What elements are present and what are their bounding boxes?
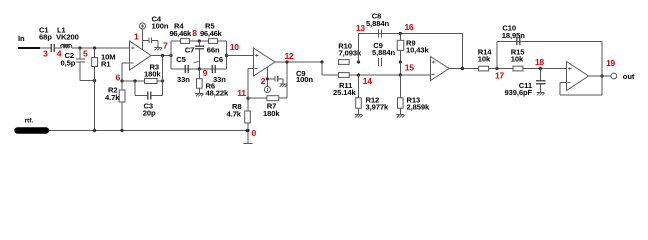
- capacitor C1: [39, 25, 54, 52]
- reference lead rtf.: [18, 118, 47, 131]
- svg-text:4.7k: 4.7k: [227, 110, 242, 119]
- resistor R9: [397, 34, 429, 63]
- node 15: [399, 60, 415, 75]
- capacitor C10: [497, 23, 602, 68]
- svg-text:10: 10: [230, 42, 239, 52]
- ground: [355, 115, 363, 118]
- power terminal V+: [140, 23, 146, 29]
- node 7: [161, 41, 168, 58]
- resistor R11: [333, 73, 357, 97]
- resistor R4: [170, 22, 193, 44]
- svg-text:5: 5: [83, 49, 88, 59]
- svg-text:R1: R1: [101, 60, 111, 69]
- node 8: [192, 28, 201, 43]
- node 14: [357, 73, 372, 86]
- svg-text:15: 15: [405, 63, 414, 73]
- resistor R7: [248, 96, 287, 118]
- wire U2 output: [275, 61, 322, 63]
- wire: [40, 47, 51, 49]
- node 16: [399, 22, 414, 35]
- svg-text:180k: 180k: [144, 69, 161, 78]
- node 19: [600, 58, 615, 78]
- node 10: [225, 42, 239, 57]
- wire filter left edge: [170, 41, 172, 69]
- ground: [397, 115, 405, 118]
- wire U4 output: [589, 75, 611, 77]
- node rail R1: [93, 129, 96, 132]
- wire: [72, 47, 130, 49]
- op-amp U2: [254, 48, 276, 76]
- node junction R13: [399, 73, 402, 76]
- svg-text:13: 13: [356, 23, 365, 33]
- svg-text:C7: C7: [185, 46, 195, 55]
- wire: [80, 79, 96, 82]
- svg-text:19: 19: [606, 58, 615, 68]
- wire: [157, 56, 164, 83]
- node 12: [285, 51, 294, 64]
- capacitor C9b: [372, 41, 396, 66]
- svg-text:68p: 68p: [39, 33, 52, 42]
- resistor R1: [92, 46, 116, 130]
- svg-text:8: 8: [192, 28, 197, 38]
- wire minus input U1: [122, 63, 130, 81]
- svg-text:16: 16: [405, 22, 414, 32]
- label out: [623, 72, 635, 81]
- svg-text:4: 4: [57, 49, 62, 59]
- capacitor C4: [143, 14, 169, 47]
- svg-text:10,43k: 10,43k: [406, 45, 430, 54]
- svg-text:5,884n: 5,884n: [366, 19, 390, 28]
- wire feedback: [461, 34, 464, 71]
- svg-text:C6: C6: [214, 55, 224, 64]
- node 6: [116, 73, 124, 83]
- svg-text:0: 0: [252, 128, 257, 138]
- node 1 supply wire: [134, 29, 143, 50]
- svg-text:18,95n: 18,95n: [502, 31, 526, 40]
- wire: [489, 68, 513, 70]
- capacitor C5: [176, 55, 190, 84]
- wire filter right edge: [226, 41, 228, 69]
- resistor R3: [144, 62, 161, 83]
- node In terminal lead: [18, 47, 40, 49]
- svg-text:out: out: [623, 72, 635, 81]
- resistor R12: [356, 75, 389, 115]
- capacitor C8: [366, 12, 390, 38]
- svg-text:4.7k: 4.7k: [105, 93, 120, 102]
- node out terminal: [611, 73, 617, 79]
- node 4: [57, 49, 62, 59]
- wire: [523, 68, 567, 70]
- svg-text:33n: 33n: [177, 75, 190, 84]
- svg-text:VK200: VK200: [56, 32, 79, 41]
- inductor L1: [56, 25, 79, 48]
- svg-text:17: 17: [495, 71, 504, 81]
- node 5: [78, 46, 88, 58]
- resistor R15: [511, 48, 526, 71]
- svg-text:14: 14: [363, 76, 372, 86]
- op-amp U4: [567, 62, 589, 91]
- svg-text:rtf.: rtf.: [25, 118, 34, 125]
- node 7 junction: [169, 54, 172, 57]
- svg-text:96,46k: 96,46k: [200, 29, 223, 38]
- node rail R8: [246, 129, 249, 132]
- svg-text:180k: 180k: [263, 109, 280, 118]
- capacitor C3: [133, 79, 162, 117]
- svg-text:3,977k: 3,977k: [366, 103, 390, 112]
- wire: [54, 47, 61, 49]
- ground: [154, 48, 162, 51]
- resistor R13: [398, 75, 431, 115]
- capacitor C11: [505, 69, 546, 97]
- svg-text:10k: 10k: [511, 55, 524, 64]
- power terminal V-: [264, 87, 270, 93]
- node 3: [43, 49, 48, 59]
- svg-text:5,884n: 5,884n: [372, 48, 396, 57]
- ground: [279, 84, 287, 87]
- node 9: [198, 67, 208, 78]
- node 13 wire: [356, 23, 365, 64]
- svg-text:66n: 66n: [207, 46, 220, 55]
- power terminal V- wire: [261, 67, 269, 87]
- node junction: [320, 60, 323, 63]
- ground terminal bar: [244, 143, 253, 145]
- wire U3 output: [449, 68, 479, 70]
- wire out of U1: [151, 55, 171, 57]
- node 18: [535, 57, 544, 70]
- wire filter bottom: [171, 68, 227, 70]
- capacitor C9 supply: [267, 69, 313, 84]
- wire C8 line: [359, 33, 463, 35]
- label In: [18, 34, 25, 43]
- capacitor C6: [212, 55, 226, 84]
- svg-text:1: 1: [134, 32, 139, 42]
- svg-text:3: 3: [43, 49, 48, 59]
- svg-text:12: 12: [285, 51, 294, 61]
- ground: [196, 94, 204, 97]
- svg-text:100n: 100n: [152, 21, 169, 30]
- resistor R10: [338, 42, 362, 65]
- resistor R6: [197, 69, 230, 97]
- svg-text:7: 7: [163, 41, 168, 51]
- resistor R14: [478, 48, 493, 71]
- svg-text:2: 2: [261, 76, 266, 86]
- svg-text:18: 18: [535, 57, 544, 67]
- node rail R2: [120, 129, 123, 132]
- wire filter top: [171, 40, 227, 42]
- resistor R5: [200, 22, 223, 44]
- svg-text:25.14k: 25.14k: [333, 88, 357, 97]
- wire ground rail: [40, 130, 248, 132]
- op-amp U1: [130, 41, 152, 70]
- svg-text:100n: 100n: [296, 75, 313, 84]
- wire: [286, 62, 288, 98]
- node 0: [246, 128, 256, 138]
- wire minus input U2: [248, 69, 254, 99]
- op-amp U3: [431, 57, 450, 81]
- capacitor C7 trimmer: [185, 41, 220, 69]
- ground: [537, 93, 545, 96]
- wire feedback: [122, 80, 145, 82]
- svg-text:In: In: [18, 34, 25, 43]
- svg-text:6: 6: [116, 73, 121, 83]
- node 11: [237, 88, 249, 100]
- svg-text:48,22k: 48,22k: [206, 88, 230, 97]
- svg-text:10k: 10k: [478, 55, 491, 64]
- svg-text:96,46k: 96,46k: [170, 29, 193, 38]
- svg-text:939,6pF: 939,6pF: [505, 88, 533, 97]
- svg-text:9: 9: [203, 68, 208, 78]
- svg-text:11: 11: [237, 88, 246, 98]
- svg-text:2,859k: 2,859k: [407, 103, 431, 112]
- capacitor C2: [61, 48, 86, 81]
- wire: [322, 62, 431, 75]
- svg-text:20p: 20p: [143, 109, 156, 118]
- wire: [227, 55, 254, 57]
- svg-text:C5: C5: [176, 55, 186, 64]
- svg-text:0,5p: 0,5p: [61, 58, 76, 67]
- resistor R2: [105, 81, 125, 131]
- wire feedback loop: [560, 41, 602, 95]
- node 17: [495, 67, 504, 81]
- resistor R8: [227, 98, 251, 143]
